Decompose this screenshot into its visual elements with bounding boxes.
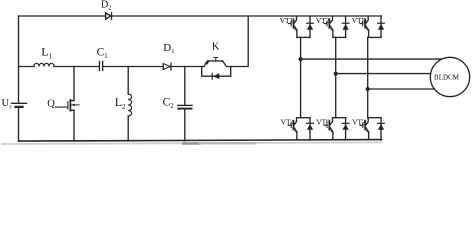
wire join bar bottom pair leg 3 [369, 117, 381, 119]
diode D1 [163, 64, 170, 70]
inductor L1 [34, 63, 54, 66]
wire join bar top pair leg 3 [369, 36, 381, 38]
wire left vertical (source positive lead) [18, 16, 20, 103]
node phase 1 junction dot [299, 57, 303, 61]
diode D2 [106, 13, 111, 19]
wire phase 3 to motor [368, 88, 435, 90]
capacitor C1 [99, 62, 101, 71]
svg-text:L1: L1 [41, 45, 52, 61]
transistor VT1 [288, 16, 297, 37]
wire bottom rail [19, 140, 382, 142]
node phase 2 junction dot [334, 72, 338, 76]
inductor L2 [128, 94, 131, 116]
wire C1 to D1 [103, 66, 163, 68]
diode across VT3 [342, 16, 349, 37]
svg-text:Us: Us [2, 98, 13, 110]
wire battery to bottom rail [18, 108, 20, 141]
transistor VT2 [360, 118, 369, 139]
svg-text:D1: D1 [163, 42, 174, 55]
transistor VT6 [324, 118, 333, 139]
svg-text:Q: Q [47, 98, 55, 109]
wire D1 to K branch [171, 66, 204, 68]
wire join bar top pair leg 2 [333, 36, 346, 38]
diode across VT4 [307, 118, 314, 140]
diode across VT6 [342, 118, 349, 140]
wire phase leg 1 vertical [300, 37, 302, 117]
wire C2 to bottom rail [184, 110, 186, 141]
svg-text:VT5: VT5 [352, 16, 366, 25]
wire L1 to C1 [54, 66, 99, 68]
svg-text:VT2: VT2 [352, 118, 366, 127]
wire Q source to bottom rail [73, 110, 75, 141]
battery Us short plate [16, 106, 23, 108]
wire phase leg 3 vertical [367, 37, 369, 117]
transistor VT5 [360, 16, 369, 37]
svg-text:K: K [212, 42, 220, 53]
switch K diode bottom path [202, 67, 231, 80]
wire main line to L2 top [127, 67, 129, 95]
svg-text:D2: D2 [101, 0, 111, 12]
transistor Q (MOSFET) [56, 100, 80, 111]
wire C2 top lead [184, 67, 186, 106]
wire join bar top pair leg 1 [297, 36, 310, 38]
scan shadow band bottom [2, 142, 381, 144]
diode across VT1 [307, 16, 314, 37]
transistor VT3 [324, 16, 333, 37]
scan smudge medium bottom [200, 142, 256, 144]
wire top bus (right of D2) [112, 15, 382, 17]
svg-text:VT6: VT6 [316, 118, 330, 127]
scan smudge dark bottom [184, 142, 200, 145]
motor BLDCM [430, 57, 469, 96]
node phase 3 junction dot [366, 87, 370, 91]
wire phase 2 to motor [336, 73, 431, 75]
capacitor C2 [178, 104, 192, 106]
switch K transistor top path [204, 57, 231, 66]
svg-text:C2: C2 [163, 97, 175, 110]
battery Us long plate [12, 102, 27, 104]
svg-text:C1: C1 [97, 46, 108, 59]
diode across VT2 [378, 118, 385, 140]
diode across VT5 [378, 16, 385, 37]
transistor VT4 [288, 118, 297, 139]
wire phase leg 2 vertical [335, 37, 337, 117]
svg-text:BLDCM: BLDCM [434, 73, 460, 81]
svg-text:VT1: VT1 [280, 16, 294, 25]
wire main line to L1 [19, 66, 35, 68]
wire L2 to bottom rail [127, 116, 129, 141]
svg-text:VT3: VT3 [316, 16, 330, 25]
wire phase 1 to motor [301, 58, 442, 60]
wire top bus (left of D2) [19, 15, 106, 17]
wire Q drain from main line [71, 67, 74, 101]
svg-text:VT4: VT4 [281, 118, 295, 127]
wire K to top bus riser [231, 16, 249, 67]
wire join bar bottom pair leg 2 [333, 117, 346, 119]
svg-text:L2: L2 [115, 95, 126, 111]
wire join bar bottom pair leg 1 [297, 117, 310, 119]
